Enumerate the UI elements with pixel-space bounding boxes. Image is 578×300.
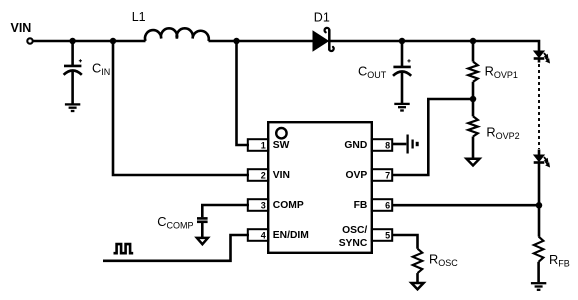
wire ROVP2 lower [472, 137, 475, 158]
pin 1 box [248, 139, 268, 151]
resistor ROVP1 [468, 62, 478, 82]
wire ROVP1 upper [472, 41, 475, 62]
junction COUT tap [399, 38, 406, 45]
wire GND pin to ground [392, 143, 407, 146]
svg-text:5: 5 [385, 231, 390, 241]
svg-text:SW: SW [273, 140, 290, 151]
LED D3 [534, 155, 550, 167]
wire main rail VIN to L1 [33, 40, 146, 43]
IC U1 body [268, 122, 372, 253]
wire ROSC lower [416, 273, 419, 282]
svg-text:6: 6 [385, 201, 390, 211]
junction CIN tap [69, 38, 76, 45]
wire EN/DIM pin to PWM input [103, 235, 249, 261]
svg-text:3: 3 [261, 201, 266, 211]
terminal VIN [27, 38, 32, 43]
wire RFB lower [537, 262, 540, 282]
wire OSC/SYNC pin to ROSC [392, 235, 418, 249]
wire CIN branch upper [71, 41, 74, 65]
wire OVP pin to OVP node [392, 99, 474, 175]
resistor ROVP2 [468, 116, 478, 136]
svg-text:GND: GND [344, 140, 367, 151]
capacitor CCOMP [197, 218, 208, 221]
svg-text:8: 8 [385, 141, 390, 151]
diode D1 (schottky) [313, 28, 334, 51]
pin 8 box [372, 139, 392, 151]
pin 3 box [248, 199, 268, 211]
ground arrow (CCOMP) [197, 238, 208, 244]
ground (RFB) [531, 283, 546, 290]
svg-text:D1: D1 [314, 11, 330, 25]
svg-text:L1: L1 [132, 10, 146, 24]
pin 4 box [248, 229, 268, 241]
pin 6 box [372, 199, 392, 211]
svg-text:COMP: COMP [273, 200, 304, 211]
junction FB node [536, 202, 543, 209]
capacitor CIN (polarized) [64, 59, 82, 75]
svg-text:7: 7 [385, 171, 390, 181]
PWM waveform symbol [114, 244, 134, 253]
capacitor COUT (polarized) [393, 59, 411, 76]
wire LED2 to FB node [538, 163, 541, 206]
wire FB node to RFB [538, 205, 541, 236]
LED D2 [534, 51, 550, 63]
wire COUT branch upper [401, 41, 404, 66]
ground (CIN) [65, 104, 80, 111]
wire ROVP2 upper [472, 99, 475, 116]
ground arrow (ROSC) [411, 283, 423, 289]
IC pin1 indicator circle [276, 128, 286, 138]
wire COMP pin to CCOMP [202, 205, 249, 217]
wire dashed LED string [538, 64, 540, 149]
svg-text:VIN: VIN [11, 21, 32, 35]
wire LED string dashes top stub [538, 59, 541, 63]
svg-text:2: 2 [261, 171, 266, 181]
ground (COUT) [394, 104, 409, 111]
ground arrow (ROVP2) [467, 159, 480, 166]
svg-text:EN/DIM: EN/DIM [273, 230, 309, 241]
wire CIN branch lower [71, 71, 74, 104]
junction VIN-pin tap [110, 38, 117, 45]
svg-text:4: 4 [261, 231, 266, 241]
wire LED2 stub [538, 150, 541, 156]
svg-text:VIN: VIN [273, 170, 290, 181]
wire L1 to D1 [209, 40, 314, 43]
resistor RFB [534, 237, 544, 262]
wire VIN pin to input node [113, 41, 249, 175]
wire COUT branch lower [401, 72, 404, 103]
svg-text:1: 1 [261, 141, 266, 151]
wire ROVP1 lower [472, 82, 475, 99]
wire SW pin to inductor node [237, 41, 250, 145]
wire FB pin to FB node [392, 204, 540, 207]
junction OVP node [470, 96, 477, 103]
pin 7 box [372, 169, 392, 181]
svg-text:SYNC: SYNC [339, 238, 368, 249]
inductor L1 [145, 28, 209, 41]
wire D1 to top-right corner [330, 41, 539, 52]
svg-text:OVP: OVP [346, 170, 368, 181]
junction SW tap [233, 38, 240, 45]
pin 2 box [248, 169, 268, 181]
ground (GND pin, sideways) [408, 135, 418, 154]
wire CCOMP lower [201, 222, 204, 237]
junction ROVP1 tap [470, 38, 477, 45]
svg-text:OSC/: OSC/ [342, 225, 367, 236]
svg-text:FB: FB [354, 200, 368, 211]
pin 5 box [372, 229, 392, 241]
resistor ROSC [413, 249, 423, 273]
